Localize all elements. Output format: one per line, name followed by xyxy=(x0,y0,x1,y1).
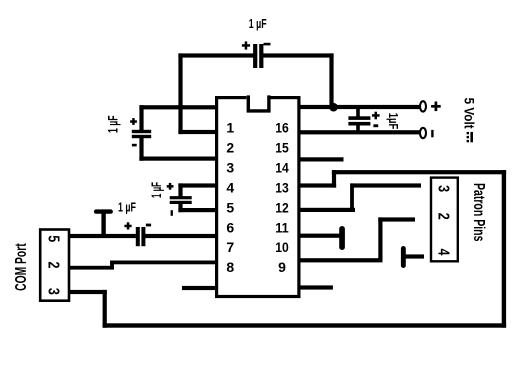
connector J1 COM Port box xyxy=(40,230,69,301)
wire upper bus horizontal xyxy=(332,170,506,174)
capacitor C5 plates (5V 1uF) xyxy=(348,116,370,120)
svg-text:14: 14 xyxy=(275,160,289,176)
capacitor C1 bottom lead xyxy=(139,137,143,161)
label C3 plus xyxy=(124,222,131,229)
svg-text:1: 1 xyxy=(226,120,234,136)
label C2 minus (rotated dash) xyxy=(171,210,173,216)
label terminal minus (rotated dash) xyxy=(431,130,433,137)
wire COM2 horizontal xyxy=(69,266,114,270)
wire pin 10 jog vertical xyxy=(378,217,382,262)
svg-text:1 µF: 1 µF xyxy=(105,115,121,133)
ground stem xyxy=(101,212,105,237)
svg-text:4: 4 xyxy=(226,179,234,195)
svg-text:7: 7 xyxy=(226,239,234,255)
wire COM2 jog vertical xyxy=(110,261,114,270)
label C1 plus xyxy=(130,118,137,125)
wire bottom bus xyxy=(103,323,507,327)
label C3 minus xyxy=(146,224,151,227)
wire pin 1 xyxy=(139,105,216,109)
wire C3 to pin 6 xyxy=(145,234,216,238)
svg-text:2: 2 xyxy=(45,262,62,269)
wire pin 3 xyxy=(139,157,216,161)
terminal plus circle xyxy=(420,101,426,111)
wire pin 13 xyxy=(299,183,336,187)
svg-text:6: 6 xyxy=(226,219,234,235)
wire pin 14 stub xyxy=(299,157,344,161)
label terminal plus xyxy=(431,102,441,112)
svg-text:Patron Pins: Patron Pins xyxy=(470,183,487,242)
svg-text:2: 2 xyxy=(226,140,234,156)
svg-text:1 µF: 1 µF xyxy=(249,17,267,31)
wire pin 5 xyxy=(178,208,216,212)
svg-text:1 µF: 1 µF xyxy=(148,182,164,198)
ground bar on Patron 4 line xyxy=(401,246,406,268)
svg-text:1 µF: 1 µF xyxy=(118,200,136,215)
svg-text:9: 9 xyxy=(278,259,286,275)
wire pin 15 to minus terminal xyxy=(299,130,421,134)
wire pin 12 jog vertical xyxy=(350,183,354,212)
wire top cap left segment xyxy=(178,53,254,57)
label 5 Volt DC (rotated) xyxy=(462,98,477,143)
capacitor C2 top lead xyxy=(178,183,182,196)
wire top cap right segment xyxy=(261,53,334,57)
svg-text:3: 3 xyxy=(435,185,452,192)
label C4 plus xyxy=(242,41,250,49)
svg-text:15: 15 xyxy=(275,140,289,156)
svg-text:10: 10 xyxy=(275,239,289,255)
wire pin 12 to Patron 3 xyxy=(351,183,421,187)
svg-text:16: 16 xyxy=(275,120,289,136)
capacitor C2 bottom lead xyxy=(178,204,182,213)
label C1 minus xyxy=(132,144,137,147)
svg-text:5: 5 xyxy=(45,235,62,242)
capacitor C5 top lead xyxy=(356,107,360,118)
svg-text:2: 2 xyxy=(435,213,452,220)
svg-text:5 Volt: 5 Volt xyxy=(462,98,477,129)
wire pin 9 stub xyxy=(299,285,333,289)
svg-text:8: 8 xyxy=(226,259,234,275)
wire COM2 to pin 7 xyxy=(110,261,217,265)
ground bar on COM5 line xyxy=(94,209,113,213)
capacitor C1 top lead xyxy=(139,105,143,130)
svg-text:11: 11 xyxy=(275,219,289,235)
svg-text:COM Port: COM Port xyxy=(13,243,30,291)
wire pin 8 stub xyxy=(182,286,217,290)
svg-text:4: 4 xyxy=(435,249,452,256)
terminal minus circle xyxy=(420,128,426,138)
wire pin 13 vertical xyxy=(332,170,336,188)
capacitor C1 plates (left 1uF) xyxy=(132,130,151,133)
svg-text:13: 13 xyxy=(275,179,289,195)
wire pin 4 xyxy=(178,183,216,187)
wire pin 16 to plus terminal xyxy=(299,105,421,109)
capacitor C2 plates (1uF between pins 4 and 5) xyxy=(170,196,192,199)
wire COM3 down vertical xyxy=(103,290,107,328)
wire Patron 4 xyxy=(405,254,425,258)
capacitor C3 plates (series 1uF on COM5 line) xyxy=(136,227,140,246)
junction dot xyxy=(329,103,338,112)
wire pin 11 xyxy=(299,234,342,238)
label C5 minus xyxy=(373,124,378,127)
wire pin 10 xyxy=(299,258,383,262)
svg-text:5: 5 xyxy=(226,199,234,215)
IC U1 (MAX232, DIP-16 body) xyxy=(217,95,299,297)
svg-text:3: 3 xyxy=(45,288,62,295)
label C4 minus xyxy=(264,43,271,46)
capacitor C5 bottom lead xyxy=(356,125,360,134)
connector J2 Patron Pins box xyxy=(431,178,458,262)
svg-text:1µF: 1µF xyxy=(386,113,401,130)
label C5 plus xyxy=(372,112,380,120)
wire pin 12 xyxy=(299,208,355,212)
wire right bus vertical xyxy=(502,170,506,328)
capacitor C4 plates (top 1uF) xyxy=(253,44,257,68)
wire pin 2 xyxy=(178,130,216,134)
ground bar on pin 11 xyxy=(339,226,345,250)
wire vertical from C4 to VCC junction xyxy=(329,53,333,109)
wire pin 10 to Patron 2 xyxy=(378,217,415,221)
wire COM5 to C3 xyxy=(69,234,136,238)
svg-text:3: 3 xyxy=(226,160,234,176)
wire vertical from C4 to pin 2 xyxy=(178,53,182,134)
label C2 plus xyxy=(167,183,174,190)
wire COM3 horizontal xyxy=(69,290,107,294)
svg-text:12: 12 xyxy=(275,199,289,215)
